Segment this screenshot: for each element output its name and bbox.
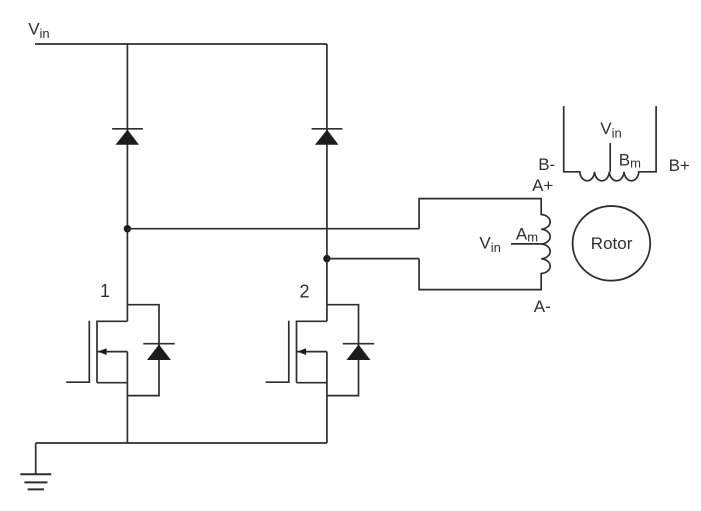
svg-text:A+: A+	[532, 176, 553, 195]
wire ground rail	[36, 442, 327, 444]
node 1 (junction dot)	[124, 225, 131, 232]
svg-text:B-: B-	[538, 155, 555, 174]
Q1 source bottom bar	[97, 382, 127, 384]
Q2 gate bar and lead	[266, 321, 289, 382]
Q1 gate bar and lead	[66, 321, 89, 382]
wire node 1 to winding A+	[127, 228, 419, 230]
wire source 2 to ground rail	[326, 396, 328, 443]
svg-text:Vin: Vin	[600, 119, 621, 141]
wire node 2 to winding A-	[327, 258, 419, 260]
node 2 (junction dot)	[323, 255, 330, 262]
transistor Q2 (N-MOSFET with body diode)	[266, 305, 375, 396]
Q2 drain step	[297, 320, 327, 322]
Q2 source vertical	[326, 352, 328, 396]
rotor circle	[573, 206, 651, 281]
diode D1	[112, 129, 143, 145]
transistor Q1 (N-MOSFET with body diode)	[66, 305, 175, 396]
Q1 body diode branch	[127, 305, 159, 396]
svg-text:B+: B+	[669, 156, 690, 175]
Q2 body diode branch	[327, 305, 359, 396]
svg-text:2: 2	[300, 282, 310, 302]
Q2 source arrow line	[297, 351, 327, 353]
svg-text:Vin: Vin	[479, 233, 500, 255]
Q1 source vertical	[126, 352, 128, 396]
ground symbol	[20, 474, 51, 489]
Q1 arrowhead	[98, 348, 107, 355]
svg-text:Bm: Bm	[619, 150, 641, 170]
wire ground stem	[35, 443, 37, 474]
Q1 drain step	[97, 320, 127, 322]
svg-text:Am: Am	[516, 224, 538, 244]
Q2 source bottom bar	[297, 382, 327, 384]
Q1 body diode D3	[143, 343, 174, 345]
wire center tap Am	[511, 243, 541, 245]
svg-text:Rotor: Rotor	[591, 234, 633, 253]
stator winding B outline with coil (B- to B+)	[564, 106, 656, 181]
wire source 1 to ground rail	[126, 396, 128, 443]
wire branch 1 drain leg	[126, 44, 128, 321]
Q1 channel bar	[96, 321, 98, 383]
Q1 source arrow line	[97, 351, 127, 353]
Q2 channel bar	[296, 321, 298, 383]
wire Vin top rail	[35, 43, 327, 45]
Q2 body diode D4	[343, 343, 374, 345]
wire branch 2 drain leg	[326, 44, 328, 321]
svg-text:A-: A-	[534, 297, 551, 316]
Q2 arrowhead	[297, 348, 306, 355]
svg-text:Vin: Vin	[28, 19, 49, 41]
diode D2	[312, 129, 343, 145]
wire center tap Bm	[609, 143, 611, 172]
svg-text:1: 1	[100, 281, 110, 301]
stator winding A outline with coil (A+ to A-)	[419, 199, 550, 290]
